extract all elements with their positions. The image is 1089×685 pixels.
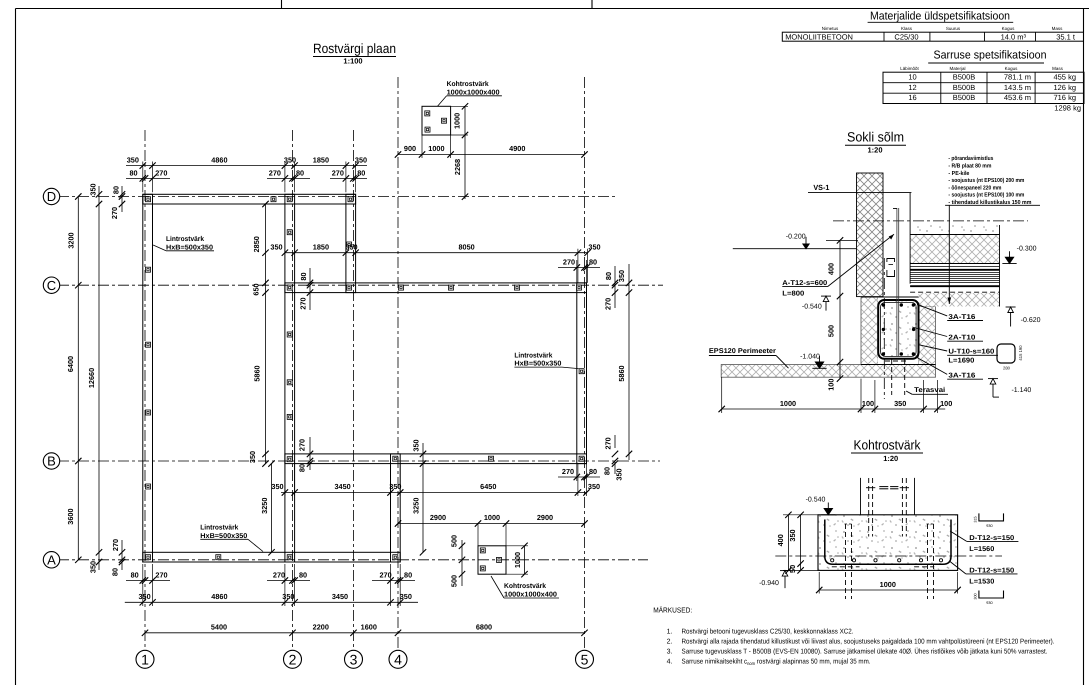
svg-text:930: 930 xyxy=(986,524,992,528)
svg-text:Suurus: Suurus xyxy=(946,26,961,31)
svg-text:Mass: Mass xyxy=(1052,26,1064,31)
svg-text:3250: 3250 xyxy=(412,498,421,514)
svg-text:300: 300 xyxy=(974,593,978,599)
svg-text:5860: 5860 xyxy=(253,365,262,381)
svg-text:4900: 4900 xyxy=(509,144,525,153)
svg-text:1000: 1000 xyxy=(428,144,444,153)
svg-text:1:20: 1:20 xyxy=(867,146,882,155)
svg-text:A: A xyxy=(47,552,56,567)
svg-text:Lintrostvärk: Lintrostvärk xyxy=(166,235,204,243)
svg-text:Lintrostvärk: Lintrostvärk xyxy=(514,351,552,359)
svg-text:Rostvärgi plaan: Rostvärgi plaan xyxy=(313,41,396,56)
svg-text:350: 350 xyxy=(284,155,296,164)
svg-text:1000: 1000 xyxy=(484,513,500,522)
svg-text:12660: 12660 xyxy=(87,368,96,388)
svg-text:Kohtrostvärk: Kohtrostvärk xyxy=(504,582,546,590)
svg-text:650: 650 xyxy=(252,283,261,295)
svg-text:2268: 2268 xyxy=(453,159,462,175)
svg-text:2: 2 xyxy=(289,651,297,667)
svg-text:1:100: 1:100 xyxy=(343,57,362,66)
svg-text:16: 16 xyxy=(908,93,916,102)
svg-text:80: 80 xyxy=(129,168,137,177)
svg-text:500: 500 xyxy=(827,325,836,337)
svg-text:Läbimõõt: Läbimõõt xyxy=(900,66,919,71)
svg-text:2900: 2900 xyxy=(430,513,446,522)
svg-text:Rostvärgi betooni tugevusklass: Rostvärgi betooni tugevusklass C25/30, k… xyxy=(682,627,854,635)
svg-text:A-T12-s=600: A-T12-s=600 xyxy=(782,280,827,287)
svg-text:4: 4 xyxy=(394,651,402,667)
svg-text:Kogus: Kogus xyxy=(1002,26,1016,31)
svg-text:100: 100 xyxy=(940,399,952,408)
svg-text:D-T12-s=150: D-T12-s=150 xyxy=(969,535,1014,542)
svg-text:Klass: Klass xyxy=(901,26,913,31)
svg-text:80: 80 xyxy=(357,168,365,177)
svg-text:270: 270 xyxy=(562,467,574,476)
svg-text:Sarruse spetsifikatsioon: Sarruse spetsifikatsioon xyxy=(934,50,1047,62)
svg-text:B500B: B500B xyxy=(953,93,976,102)
svg-text:80: 80 xyxy=(299,571,307,580)
svg-text:B500B: B500B xyxy=(953,83,976,92)
svg-text:Kogus: Kogus xyxy=(1005,66,1019,71)
svg-text:350: 350 xyxy=(389,482,401,491)
svg-text:270: 270 xyxy=(604,437,613,449)
svg-text:1000: 1000 xyxy=(453,113,462,129)
svg-text:- soojustus (nt EPS100) 100 mm: - soojustus (nt EPS100) 100 mm xyxy=(948,192,1024,199)
svg-text:MONOLIITBETOON: MONOLIITBETOON xyxy=(785,32,853,41)
svg-text:L=1530: L=1530 xyxy=(969,579,994,586)
svg-text:350: 350 xyxy=(400,592,412,601)
svg-text:HxB=500x350: HxB=500x350 xyxy=(166,244,213,251)
svg-text:2A-T10: 2A-T10 xyxy=(948,335,975,342)
svg-text:HxB=500x350: HxB=500x350 xyxy=(514,361,561,368)
svg-text:3: 3 xyxy=(350,651,358,667)
svg-text:8050: 8050 xyxy=(458,242,474,251)
svg-text:VS-1: VS-1 xyxy=(813,183,829,192)
svg-text:1000: 1000 xyxy=(880,580,896,589)
svg-text:350: 350 xyxy=(788,529,797,541)
svg-text:-0.940: -0.940 xyxy=(759,580,779,587)
svg-text:5: 5 xyxy=(581,651,589,667)
svg-text:5860: 5860 xyxy=(617,365,626,381)
svg-text:50: 50 xyxy=(788,565,797,573)
svg-text:1298 kg: 1298 kg xyxy=(1054,104,1081,113)
svg-text:12: 12 xyxy=(908,83,916,92)
svg-text:270: 270 xyxy=(155,168,167,177)
svg-text:4860: 4860 xyxy=(211,592,227,601)
svg-text:- PE-kile: - PE-kile xyxy=(948,170,970,177)
svg-text:270: 270 xyxy=(155,571,167,580)
svg-text:- tihendatud killustikalus 150: - tihendatud killustikalus 150 mm xyxy=(948,199,1031,206)
svg-text:455 kg: 455 kg xyxy=(1053,73,1076,82)
svg-text:80: 80 xyxy=(589,258,597,267)
svg-text:2850: 2850 xyxy=(252,236,261,252)
svg-text:6800: 6800 xyxy=(476,623,492,632)
svg-text:6400: 6400 xyxy=(66,356,75,372)
svg-text:-0.540: -0.540 xyxy=(806,497,826,504)
svg-text:80: 80 xyxy=(296,168,304,177)
svg-text:143.5 m: 143.5 m xyxy=(1004,83,1031,92)
svg-text:3A-T16: 3A-T16 xyxy=(948,314,975,321)
svg-text:1: 1 xyxy=(141,651,149,667)
svg-text:EPS120 Perimeeter: EPS120 Perimeeter xyxy=(709,347,776,355)
svg-text:100: 100 xyxy=(862,399,874,408)
svg-text:270: 270 xyxy=(299,297,308,309)
svg-text:-0.200: -0.200 xyxy=(786,234,806,241)
svg-text:350: 350 xyxy=(282,592,294,601)
svg-text:270: 270 xyxy=(269,168,281,177)
svg-text:3.: 3. xyxy=(667,648,673,655)
svg-text:350: 350 xyxy=(248,451,257,463)
svg-text:900: 900 xyxy=(404,144,416,153)
svg-text:35.1 t: 35.1 t xyxy=(1056,32,1076,41)
svg-text:500: 500 xyxy=(449,535,458,547)
svg-text:3450: 3450 xyxy=(334,482,350,491)
svg-text:930: 930 xyxy=(986,601,992,605)
svg-text:716 kg: 716 kg xyxy=(1053,93,1076,102)
svg-text:1000: 1000 xyxy=(780,399,796,408)
svg-text:-1.040: -1.040 xyxy=(800,354,820,361)
svg-text:6450: 6450 xyxy=(480,482,496,491)
svg-text:- õõnespaneel 220 mm: - õõnespaneel 220 mm xyxy=(948,184,1001,191)
svg-text:1.: 1. xyxy=(667,628,673,635)
svg-text:1000x1000x400: 1000x1000x400 xyxy=(447,89,500,96)
svg-text:Kohtrostvärk: Kohtrostvärk xyxy=(447,80,489,88)
svg-text:270: 270 xyxy=(110,207,119,219)
svg-text:280: 280 xyxy=(1003,365,1011,370)
svg-text:500: 500 xyxy=(449,575,458,587)
svg-text:350: 350 xyxy=(355,155,367,164)
svg-text:80: 80 xyxy=(589,467,597,476)
svg-text:Lintrostvärk: Lintrostvärk xyxy=(200,524,238,532)
svg-text:781.1 m: 781.1 m xyxy=(1004,73,1031,82)
svg-text:350: 350 xyxy=(615,468,624,480)
svg-text:350: 350 xyxy=(588,242,600,251)
svg-text:350: 350 xyxy=(89,183,98,195)
svg-text:270: 270 xyxy=(563,258,575,267)
svg-text:270: 270 xyxy=(332,168,344,177)
svg-text:Mass: Mass xyxy=(1052,66,1064,71)
svg-text:80: 80 xyxy=(299,272,308,280)
svg-text:100: 100 xyxy=(827,379,836,391)
svg-text:U-T10-s=160: U-T10-s=160 xyxy=(948,349,994,356)
svg-text:-1.140: -1.140 xyxy=(1011,387,1031,394)
svg-text:Rostvärgi alla rajada tihendat: Rostvärgi alla rajada tihendatud killust… xyxy=(682,637,1055,645)
svg-text:80: 80 xyxy=(604,272,613,280)
svg-text:3200: 3200 xyxy=(67,232,76,248)
svg-text:1:20: 1:20 xyxy=(883,454,898,463)
svg-text:126 kg: 126 kg xyxy=(1053,83,1076,92)
svg-text:270: 270 xyxy=(111,539,120,551)
svg-text:80: 80 xyxy=(131,571,139,580)
svg-text:3600: 3600 xyxy=(66,508,75,524)
svg-text:400: 400 xyxy=(776,534,785,546)
svg-text:1850: 1850 xyxy=(313,242,329,251)
svg-text:2.: 2. xyxy=(667,638,673,645)
svg-text:270: 270 xyxy=(604,298,613,310)
svg-text:- soojustus (nt EPS100) 200 mm: - soojustus (nt EPS100) 200 mm xyxy=(948,177,1024,184)
svg-text:3450: 3450 xyxy=(332,592,348,601)
svg-text:4.: 4. xyxy=(667,659,673,666)
svg-text:270: 270 xyxy=(380,571,392,580)
svg-text:400: 400 xyxy=(827,263,836,275)
svg-text:B500B: B500B xyxy=(953,73,976,82)
svg-text:-0.540: -0.540 xyxy=(802,303,822,310)
svg-text:350: 350 xyxy=(412,439,421,451)
svg-text:14.0 m³: 14.0 m³ xyxy=(1001,32,1027,41)
svg-text:350: 350 xyxy=(894,399,906,408)
svg-text:2900: 2900 xyxy=(537,513,553,522)
svg-text:3A-T16: 3A-T16 xyxy=(948,373,975,380)
svg-text:5400: 5400 xyxy=(211,623,227,632)
svg-text:4860: 4860 xyxy=(211,155,227,164)
svg-text:10: 10 xyxy=(908,73,916,82)
svg-text:2200: 2200 xyxy=(313,623,329,632)
svg-text:- põrandaviimistlus: - põrandaviimistlus xyxy=(948,155,993,162)
svg-text:415 190: 415 190 xyxy=(1018,345,1023,361)
svg-text:Terasvai: Terasvai xyxy=(914,386,945,394)
svg-text:Kohtrostvärk: Kohtrostvärk xyxy=(854,438,921,453)
svg-text:1000: 1000 xyxy=(513,552,522,568)
svg-text:Materjal: Materjal xyxy=(949,66,965,71)
svg-text:D-T12-s=150: D-T12-s=150 xyxy=(969,567,1014,574)
svg-text:- R/B plaat 80 mm: - R/B plaat 80 mm xyxy=(948,162,991,169)
svg-text:270: 270 xyxy=(273,571,285,580)
svg-text:80: 80 xyxy=(404,571,412,580)
svg-text:80: 80 xyxy=(112,186,121,194)
svg-text:270: 270 xyxy=(298,439,307,451)
svg-text:350: 350 xyxy=(345,242,357,251)
svg-text:1600: 1600 xyxy=(361,623,377,632)
svg-text:L=800: L=800 xyxy=(782,290,804,297)
svg-text:L=1690: L=1690 xyxy=(948,357,974,364)
svg-text:HxB=500x350: HxB=500x350 xyxy=(200,533,247,540)
svg-text:315: 315 xyxy=(974,516,978,522)
svg-text:Sokli sõlm: Sokli sõlm xyxy=(847,130,904,145)
svg-text:L=1560: L=1560 xyxy=(969,546,994,553)
svg-text:-0.300: -0.300 xyxy=(1017,246,1037,253)
svg-text:-0.620: -0.620 xyxy=(1021,317,1041,324)
svg-text:Sarruse nimikaitsekiht cnom ro: Sarruse nimikaitsekiht cnom rostvärgi al… xyxy=(682,658,871,667)
svg-text:1850: 1850 xyxy=(313,155,329,164)
svg-text:B: B xyxy=(47,454,56,469)
svg-text:3250: 3250 xyxy=(260,498,269,514)
svg-text:350: 350 xyxy=(270,242,282,251)
svg-text:350: 350 xyxy=(588,482,600,491)
svg-text:1000x1000x400: 1000x1000x400 xyxy=(504,591,557,598)
svg-text:80: 80 xyxy=(298,464,307,472)
svg-text:Nimetus: Nimetus xyxy=(822,26,839,31)
svg-text:Sarruse tugevusklass T - B500B: Sarruse tugevusklass T - B500B (EVS-EN 1… xyxy=(682,647,1048,655)
svg-text:453.6 m: 453.6 m xyxy=(1004,93,1031,102)
svg-text:Materjalide üldspetsifikatsioo: Materjalide üldspetsifikatsioon xyxy=(870,11,1010,23)
svg-text:350: 350 xyxy=(139,592,151,601)
svg-text:80: 80 xyxy=(603,467,612,475)
svg-text:350: 350 xyxy=(127,155,139,164)
svg-text:C25/30: C25/30 xyxy=(894,32,918,41)
svg-text:MÄRKUSED:: MÄRKUSED: xyxy=(653,605,692,614)
svg-text:350: 350 xyxy=(617,270,626,282)
svg-text:C: C xyxy=(47,278,56,293)
svg-text:80: 80 xyxy=(111,568,120,576)
svg-text:350: 350 xyxy=(89,561,98,573)
svg-text:350: 350 xyxy=(271,482,283,491)
svg-text:D: D xyxy=(47,189,56,204)
